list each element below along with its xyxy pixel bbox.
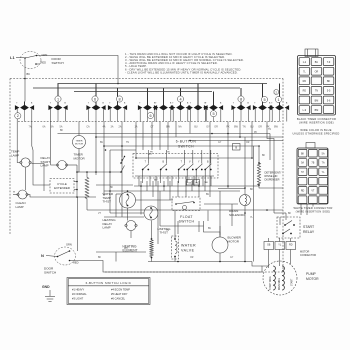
svg-text:NA: NA bbox=[178, 126, 182, 129]
svg-text:57: 57 bbox=[301, 171, 304, 174]
svg-text:PK: PK bbox=[254, 132, 258, 134]
svg-text:TN: TN bbox=[126, 142, 129, 144]
svg-text:BU: BU bbox=[206, 194, 210, 196]
svg-text:6: 6 bbox=[94, 97, 96, 101]
wire col 170 bbox=[169, 181, 171, 200]
timer cam contact group 5 bbox=[147, 88, 149, 105]
svg-text:4: 4 bbox=[179, 97, 181, 101]
svg-text:T: T bbox=[181, 162, 183, 164]
wire blower bbox=[219, 226, 221, 237]
svg-text:2: 2 bbox=[17, 114, 19, 118]
svg-text:BK: BK bbox=[27, 72, 31, 76]
timer contact number 5 bbox=[261, 96, 267, 102]
6-button lower rail bbox=[135, 175, 214, 177]
svg-text:START WDG: START WDG bbox=[269, 276, 272, 290]
svg-text:WATER: WATER bbox=[181, 244, 196, 248]
svg-text:8: 8 bbox=[240, 97, 242, 101]
svg-text:YL: YL bbox=[322, 171, 326, 174]
svg-text:WHITE TIMER CONNECTOR: WHITE TIMER CONNECTOR bbox=[293, 206, 332, 210]
svg-text:LAMP: LAMP bbox=[41, 164, 49, 168]
svg-text:T: T bbox=[139, 103, 141, 105]
svg-text:TN: TN bbox=[242, 126, 245, 129]
svg-text:BK: BK bbox=[301, 152, 305, 155]
svg-text:BK: BK bbox=[110, 187, 114, 189]
svg-text:TN: TN bbox=[315, 90, 318, 93]
svg-text:CONNECTOR: CONNECTOR bbox=[300, 254, 316, 257]
wire run y146 bbox=[104, 145, 258, 147]
svg-text:BK: BK bbox=[60, 130, 64, 132]
svg-text:T: T bbox=[109, 103, 111, 105]
vertical bus x77 bbox=[76, 165, 78, 197]
wire run y252 bbox=[96, 251, 146, 253]
svg-text:SB: SB bbox=[267, 243, 271, 246]
svg-text:7L: 7L bbox=[303, 71, 306, 74]
svg-text:SWITCH: SWITCH bbox=[44, 271, 56, 275]
svg-text:WIRE COLOR IS BLUE: WIRE COLOR IS BLUE bbox=[300, 128, 331, 132]
svg-text:FLOAT: FLOAT bbox=[180, 215, 193, 219]
clean lamp CL1 bbox=[18, 190, 27, 199]
svg-text:7A: 7A bbox=[188, 182, 191, 185]
svg-text:B: B bbox=[64, 103, 66, 105]
wire run y158 bbox=[136, 157, 252, 159]
wire col 116 low bbox=[115, 252, 117, 262]
svg-text:B: B bbox=[163, 162, 165, 164]
wire col 128 bbox=[127, 191, 129, 192]
wire drop x152 bbox=[151, 122, 153, 151]
start relay box bbox=[277, 217, 300, 238]
wire col 110 bbox=[109, 150, 111, 213]
wire run y194 bbox=[116, 193, 122, 195]
wire drop x79 to timer motor bbox=[78, 122, 80, 136]
svg-text:W: W bbox=[13, 192, 16, 194]
svg-text:B: B bbox=[31, 103, 33, 105]
wire run y137 bbox=[96, 136, 283, 138]
svg-text:T: T bbox=[145, 162, 147, 164]
wire run y150 bbox=[110, 149, 136, 151]
motor connector terminals bbox=[264, 242, 274, 250]
timer cam contact group 8 bbox=[197, 84, 199, 106]
svg-text:BK: BK bbox=[205, 182, 208, 184]
drain solenoid bbox=[240, 195, 251, 206]
svg-text:LAMP: LAMP bbox=[103, 226, 111, 230]
svg-text:MAIN WDG: MAIN WDG bbox=[278, 278, 281, 290]
svg-text:TN: TN bbox=[268, 129, 271, 131]
temp lamp TL1 bbox=[21, 158, 30, 167]
svg-text:T: T bbox=[190, 103, 192, 105]
wire col 160b bbox=[159, 191, 161, 226]
ground symbol bbox=[49, 290, 51, 296]
bus wire C bbox=[74, 91, 212, 93]
wire drop x160 bbox=[159, 122, 161, 151]
pump motor circle (dashed) bbox=[263, 261, 297, 295]
timer enclosure border (dashed) bbox=[10, 78, 283, 80]
svg-text:#5 HEAT DRY: #5 HEAT DRY bbox=[111, 292, 128, 296]
svg-text:RED: RED bbox=[73, 261, 79, 265]
svg-text:T: T bbox=[50, 103, 52, 105]
resistor R1 bbox=[85, 178, 89, 199]
wire col 220b bbox=[219, 191, 221, 235]
svg-text:GRN: GRN bbox=[66, 243, 72, 247]
terminal box B bbox=[233, 144, 241, 151]
svg-text:VT: VT bbox=[98, 213, 102, 215]
6-button switch contacts bbox=[143, 164, 149, 170]
wire drop x122 bbox=[121, 122, 123, 218]
svg-text:SWITCH: SWITCH bbox=[52, 61, 64, 65]
svg-text:WH: WH bbox=[148, 154, 152, 156]
timer contact number 6 bbox=[92, 96, 98, 102]
wire BK from door switch down bbox=[24, 58, 26, 102]
svg-text:T: T bbox=[155, 103, 157, 105]
svg-text:LAMP: LAMP bbox=[11, 153, 19, 157]
svg-text:7A: 7A bbox=[322, 162, 325, 165]
limiting thermostat bbox=[144, 206, 158, 220]
wire drop x52 bbox=[51, 122, 58, 166]
timer contact number 2 bbox=[15, 113, 21, 119]
svg-text:RELAY: RELAY bbox=[303, 230, 315, 234]
wire cycle extender left bbox=[33, 150, 50, 185]
svg-text:START: START bbox=[291, 278, 294, 286]
svg-text:OR: OR bbox=[258, 126, 262, 129]
svg-text:RD: RD bbox=[301, 190, 305, 193]
blower motor bbox=[212, 237, 228, 253]
wire doorswitch up bbox=[77, 197, 79, 251]
svg-text:OR: OR bbox=[190, 257, 194, 259]
svg-text:5-6: 5-6 bbox=[327, 99, 331, 102]
timer contact number 1 bbox=[55, 96, 61, 102]
heating delay lamp bbox=[126, 221, 136, 231]
svg-text:VT: VT bbox=[311, 190, 315, 193]
wire col 164 bbox=[163, 181, 165, 191]
wire drop x267 bbox=[267, 122, 274, 214]
black timer connector bbox=[305, 49, 318, 57]
svg-text:BLACK TIMER CONNECTOR: BLACK TIMER CONNECTOR bbox=[297, 117, 336, 121]
wire drop x104 bbox=[103, 122, 105, 197]
svg-text:SWITCH: SWITCH bbox=[178, 145, 194, 149]
wire to temp lamp bbox=[17, 122, 20, 163]
wire drop x168 bbox=[167, 122, 169, 151]
svg-text:#6 CANCEL: #6 CANCEL bbox=[111, 297, 126, 301]
svg-text:#1 HEAVY: #1 HEAVY bbox=[72, 288, 84, 292]
svg-text:GY: GY bbox=[206, 126, 210, 129]
cam follower line (dashed) bbox=[18, 121, 281, 123]
wire drop x252 bbox=[251, 122, 253, 159]
timer contact number 1 bbox=[275, 96, 281, 102]
svg-text:YL: YL bbox=[278, 243, 282, 246]
svg-text:BU: BU bbox=[100, 142, 104, 144]
svg-text:1: 1 bbox=[57, 97, 59, 101]
svg-text:5A: 5A bbox=[60, 126, 63, 129]
wire run y261.5 bbox=[148, 261, 252, 263]
svg-text:MOTOR: MOTOR bbox=[75, 144, 84, 146]
timer cam contact group 12 bbox=[279, 84, 281, 106]
wire clean lamp run bbox=[27, 195, 96, 198]
svg-text:OR: OR bbox=[214, 126, 218, 129]
wire GRN right bbox=[37, 56, 119, 84]
wire col 199 bbox=[198, 181, 200, 197]
svg-text:2: 2 bbox=[275, 91, 277, 95]
wire drop x136 bbox=[135, 122, 137, 159]
svg-text:6: 6 bbox=[149, 114, 151, 118]
svg-text:T: T bbox=[254, 103, 256, 105]
wire cycle ext right bbox=[74, 181, 77, 183]
wire r1 bbox=[86, 172, 88, 178]
svg-text:UNLESS OTHERWISE SPECIFIED: UNLESS OTHERWISE SPECIFIED bbox=[293, 131, 340, 135]
wire temp lamp right bbox=[32, 164, 45, 192]
wire drain solenoid bbox=[244, 137, 246, 195]
timer cam contact group 11 bbox=[262, 84, 264, 106]
white timer connector bbox=[306, 143, 315, 149]
door switch DS1 (upper) bbox=[20, 52, 41, 69]
hex ref symbol 2 bbox=[274, 89, 278, 95]
svg-text:7A: 7A bbox=[29, 126, 32, 129]
float switch contact bbox=[176, 202, 194, 205]
6-button switch box bbox=[133, 154, 218, 179]
svg-text:SWITCH: SWITCH bbox=[179, 220, 195, 224]
svg-text:TIMER: TIMER bbox=[76, 141, 83, 143]
svg-text:GRN: GRN bbox=[42, 53, 48, 57]
svg-text:(WIRE INSERTION SIDE): (WIRE INSERTION SIDE) bbox=[299, 120, 334, 124]
svg-text:B: B bbox=[247, 103, 249, 105]
svg-text:B: B bbox=[286, 103, 288, 105]
switch logic table bbox=[67, 278, 150, 305]
svg-text:7B: 7B bbox=[195, 183, 198, 185]
svg-text:B: B bbox=[102, 103, 104, 105]
svg-text:T-9: T-9 bbox=[327, 61, 331, 64]
svg-text:RD: RD bbox=[303, 80, 307, 83]
svg-text:T: T bbox=[88, 103, 90, 105]
wire col 208 bbox=[207, 211, 209, 222]
svg-text:BU: BU bbox=[208, 228, 212, 230]
wire delay lamp right bbox=[67, 164, 78, 166]
svg-text:DISPENSER: DISPENSER bbox=[265, 178, 280, 182]
svg-text:Y: Y bbox=[198, 162, 200, 164]
svg-text:EXTENDER: EXTENDER bbox=[54, 186, 70, 190]
timer contact number 6 bbox=[147, 112, 153, 118]
wire col 270 bbox=[269, 134, 271, 161]
wire run y191 bbox=[104, 190, 240, 192]
svg-text:MOTOR: MOTOR bbox=[74, 156, 86, 160]
svg-text:RD: RD bbox=[289, 243, 293, 246]
svg-text:2A: 2A bbox=[119, 126, 122, 129]
wire timer motor down bbox=[77, 149, 79, 173]
svg-text:RINSE AID: RINSE AID bbox=[265, 174, 278, 178]
svg-text:OR: OR bbox=[315, 71, 319, 74]
svg-text:- CLEAN LIGHT WILL BE ILLUMINA: - CLEAN LIGHT WILL BE ILLUMINATED UNTIL … bbox=[125, 70, 238, 74]
wire drop x228 bbox=[227, 122, 229, 134]
svg-text:6-BUTTON SWITCH LOGIC: 6-BUTTON SWITCH LOGIC bbox=[86, 281, 132, 285]
svg-text:8: 8 bbox=[118, 97, 120, 101]
svg-text:LAMP: LAMP bbox=[16, 205, 24, 209]
svg-text:BM: BM bbox=[315, 109, 319, 112]
wire col 192 bbox=[191, 181, 193, 191]
timer cam contact group 2 bbox=[57, 84, 59, 106]
wire run y140.5 bbox=[190, 140, 283, 142]
svg-text:BK: BK bbox=[250, 189, 254, 191]
svg-text:B: B bbox=[187, 103, 189, 105]
wire run y226 bbox=[160, 225, 204, 227]
wire col 205 bbox=[204, 181, 206, 191]
svg-text:7B: 7B bbox=[311, 162, 314, 165]
svg-text:5A: 5A bbox=[322, 152, 325, 155]
thermostat blade contacts bbox=[121, 157, 125, 164]
wire connector down bbox=[268, 250, 270, 269]
start relay contacts bbox=[284, 224, 286, 226]
svg-text:V: V bbox=[189, 162, 191, 164]
wire col 141 bbox=[140, 181, 142, 215]
wire run y188 bbox=[218, 188, 245, 190]
svg-text:BK: BK bbox=[98, 257, 102, 259]
svg-text:B: B bbox=[124, 103, 126, 105]
wire col 186 bbox=[185, 181, 187, 197]
svg-text:5-5: 5-5 bbox=[327, 90, 331, 93]
svg-text:BU: BU bbox=[315, 61, 319, 64]
wire col 153 bbox=[152, 181, 154, 197]
svg-text:#4 ECON TEMP: #4 ECON TEMP bbox=[111, 288, 130, 292]
wire run y133.5 bbox=[58, 133, 271, 135]
wire drop x143 bbox=[142, 122, 144, 151]
svg-text:TN: TN bbox=[167, 152, 170, 154]
svg-text:5A: 5A bbox=[301, 162, 304, 165]
delay start lamp DL1 bbox=[58, 161, 67, 170]
door switch DS2 (lower) bbox=[55, 247, 76, 265]
wire dispenser bbox=[258, 146, 260, 163]
wire run y185 bbox=[96, 184, 133, 186]
svg-text:GND: GND bbox=[42, 285, 50, 289]
svg-text:OR: OR bbox=[246, 142, 250, 144]
svg-text:T: T bbox=[233, 103, 235, 105]
svg-text:GY: GY bbox=[218, 142, 222, 144]
float switch box bbox=[172, 197, 200, 211]
wire col 116 bbox=[115, 194, 117, 217]
wire junction dots bbox=[95, 136, 97, 138]
svg-text:BU: BU bbox=[194, 126, 198, 129]
timer motor M1 bbox=[73, 136, 86, 149]
svg-text:T: T bbox=[172, 103, 174, 105]
wire stubs below white connector bbox=[300, 204, 302, 215]
wire doorswitch right bbox=[74, 261, 269, 273]
wire run y213 bbox=[110, 212, 144, 214]
svg-text:BK: BK bbox=[288, 213, 292, 215]
timer cam contact group 4 bbox=[117, 88, 119, 105]
svg-text:VALVE: VALVE bbox=[181, 249, 195, 253]
svg-text:PUMP: PUMP bbox=[306, 272, 317, 276]
svg-text:TH'ST: TH'ST bbox=[103, 200, 112, 204]
wire run y210 bbox=[87, 209, 283, 211]
svg-text:B: B bbox=[220, 103, 222, 105]
svg-text:#3 LIGHT: #3 LIGHT bbox=[72, 297, 84, 301]
wire drop x210 bbox=[209, 122, 211, 198]
svg-text:1: 1 bbox=[277, 98, 279, 102]
timer cam contact group 7 bbox=[180, 88, 182, 105]
wire relay down bbox=[268, 238, 270, 242]
svg-text:BW: BW bbox=[234, 126, 239, 129]
svg-text:T: T bbox=[271, 103, 273, 105]
wire col 232 bbox=[231, 204, 233, 226]
wire left col bbox=[25, 168, 27, 191]
bus wire A bbox=[58, 83, 268, 85]
timer contact number 8 bbox=[116, 96, 122, 102]
pump motor windings bbox=[273, 266, 275, 290]
timer cam contact group 1 bbox=[24, 102, 26, 106]
svg-text:#2 NORMAL: #2 NORMAL bbox=[72, 292, 87, 296]
wire drop x240 bbox=[239, 122, 241, 138]
svg-text:3A: 3A bbox=[111, 126, 114, 129]
svg-text:SOLENOID: SOLENOID bbox=[229, 213, 245, 217]
svg-text:(WIRE INSERTION SIDE): (WIRE INSERTION SIDE) bbox=[296, 209, 331, 213]
wire run y232 bbox=[204, 221, 221, 237]
svg-text:WH: WH bbox=[124, 248, 128, 250]
wire bbox=[16, 57, 24, 59]
timer cam contact group 9 bbox=[213, 92, 215, 106]
timer contact number 4 bbox=[177, 96, 183, 102]
timer cam contact group 10 bbox=[240, 88, 242, 105]
wire drop x96 bbox=[95, 122, 97, 176]
heating element bbox=[150, 240, 153, 257]
wire run y186 bbox=[134, 185, 259, 187]
wire relay feed bbox=[274, 212, 286, 214]
svg-text:5: 5 bbox=[212, 112, 214, 116]
water temp thermostat bbox=[120, 192, 136, 208]
svg-text:START: START bbox=[303, 225, 315, 229]
timer cam contact group 3 bbox=[95, 84, 97, 106]
wire col 228b bbox=[227, 134, 229, 189]
wire col 147 bbox=[146, 181, 148, 191]
svg-text:MOTOR: MOTOR bbox=[228, 240, 240, 244]
svg-text:L-9: L-9 bbox=[303, 109, 307, 112]
wire drop x24 bbox=[24, 121, 26, 123]
svg-text:B: B bbox=[235, 145, 237, 149]
svg-text:RED: RED bbox=[41, 61, 47, 65]
6-button bottom drops bbox=[138, 176, 140, 186]
wire watertemp bbox=[136, 199, 174, 201]
svg-text:N: N bbox=[41, 253, 44, 258]
timer cam contact group 6 bbox=[163, 88, 165, 105]
svg-text:RD: RD bbox=[303, 90, 307, 93]
wire drop x176 bbox=[175, 122, 177, 138]
svg-text:CA: CA bbox=[86, 126, 90, 129]
svg-text:TN: TN bbox=[166, 230, 169, 232]
timer contact number 8 bbox=[238, 96, 244, 102]
bus wire B bbox=[33, 87, 240, 89]
timer contact number 5 bbox=[210, 111, 216, 117]
wire col 158 bbox=[157, 181, 159, 244]
wire drop x33 bbox=[32, 122, 33, 151]
wire run y204 bbox=[204, 203, 238, 205]
svg-text:MOTOR: MOTOR bbox=[306, 277, 319, 281]
svg-text:BK: BK bbox=[327, 80, 331, 83]
svg-text:T: T bbox=[16, 103, 18, 105]
water valve bbox=[172, 236, 179, 259]
wire N bbox=[46, 256, 58, 257]
svg-text:6A: 6A bbox=[43, 126, 46, 129]
svg-text:B: B bbox=[207, 162, 209, 164]
svg-text:BW: BW bbox=[166, 126, 171, 129]
svg-text:GY: GY bbox=[230, 257, 234, 259]
wire col 178 bbox=[177, 181, 179, 197]
svg-text:1-2: 1-2 bbox=[303, 61, 307, 64]
wire drop x190 bbox=[189, 122, 191, 134]
svg-text:BK: BK bbox=[262, 155, 266, 157]
svg-text:6-BUTTON: 6-BUTTON bbox=[176, 140, 197, 144]
wire col 245 bbox=[244, 213, 246, 261]
svg-text:L1: L1 bbox=[10, 55, 15, 60]
svg-text:DETERGENT/: DETERGENT/ bbox=[265, 171, 282, 175]
dispenser resistor bbox=[257, 163, 260, 185]
svg-text:5: 5 bbox=[263, 98, 265, 102]
svg-text:T: T bbox=[205, 103, 207, 105]
cycle extender box bbox=[50, 179, 74, 194]
wire clean lamp left stub bbox=[13, 194, 18, 196]
